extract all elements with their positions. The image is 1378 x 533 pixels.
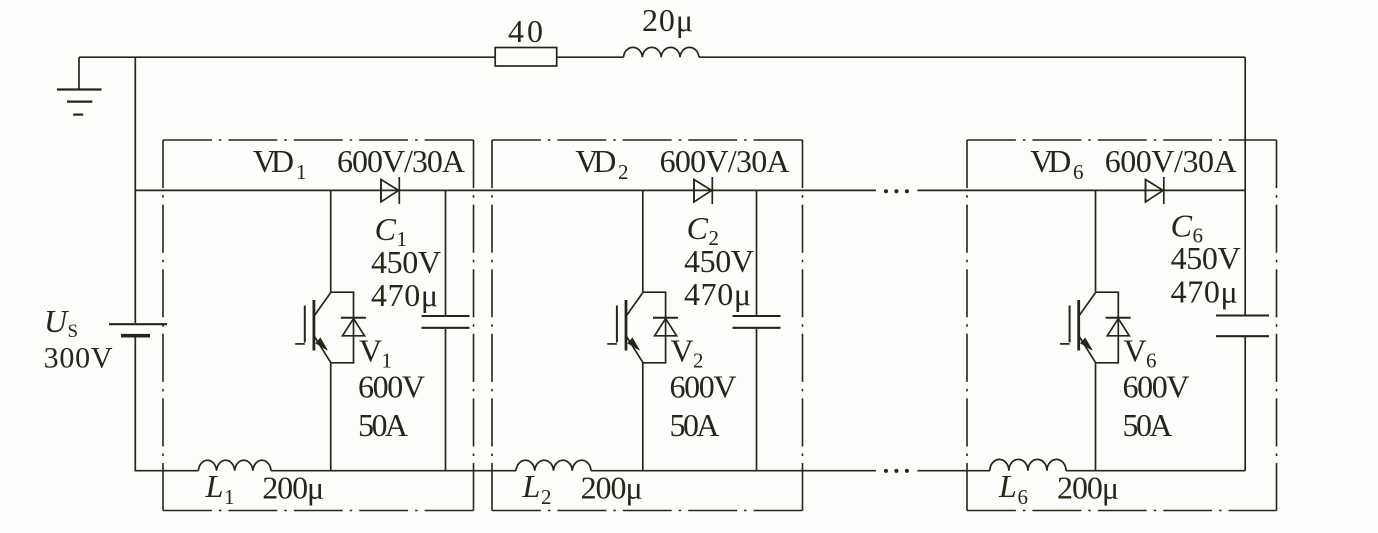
capacitor C1 branch <box>445 190 447 315</box>
svg-text:VD: VD <box>1030 143 1071 179</box>
wire between resistor and inductor <box>557 56 624 58</box>
inductor L6 <box>990 459 1066 470</box>
svg-text:470μ: 470μ <box>1171 274 1238 310</box>
svg-text:C: C <box>1171 208 1193 244</box>
svg-text:470μ: 470μ <box>684 276 751 312</box>
svg-text:6: 6 <box>1018 485 1029 509</box>
battery US plates <box>109 323 167 325</box>
ground <box>57 57 102 114</box>
capacitor C6 branch <box>1244 190 1246 314</box>
svg-text:600V/30A: 600V/30A <box>660 143 790 179</box>
svg-text:V: V <box>359 333 382 369</box>
svg-text:600V/30A: 600V/30A <box>1105 143 1237 179</box>
wire bottom row <box>271 470 516 472</box>
svg-text:300V: 300V <box>44 342 113 375</box>
svg-text:450V: 450V <box>684 243 754 279</box>
svg-text:L: L <box>205 468 224 504</box>
svg-text:1: 1 <box>224 485 235 509</box>
svg-text:VD: VD <box>253 143 294 179</box>
svg-text:C: C <box>375 211 397 247</box>
node dots diode row <box>884 189 909 473</box>
svg-text:S: S <box>68 321 79 342</box>
svg-text:450V: 450V <box>371 244 441 280</box>
wire diode row <box>135 189 876 191</box>
svg-text:470μ: 470μ <box>371 277 438 313</box>
svg-text:200μ: 200μ <box>1057 470 1119 506</box>
svg-text:600V: 600V <box>670 369 737 405</box>
svg-text:450V: 450V <box>1171 240 1241 276</box>
battery US wire upper <box>134 57 136 323</box>
transistor V1 (IGBT with antiparallel diode) <box>295 190 366 471</box>
module box 1 <box>163 140 474 511</box>
svg-text:1: 1 <box>296 160 307 184</box>
svg-text:200μ: 200μ <box>262 470 324 506</box>
module box 2 <box>492 140 803 511</box>
wire top bus right segment <box>699 56 1245 58</box>
svg-text:V: V <box>1124 333 1147 369</box>
svg-text:C: C <box>687 210 709 246</box>
svg-text:200μ: 200μ <box>581 470 643 506</box>
diode VD1 <box>381 177 399 204</box>
inductor L1 <box>198 460 271 470</box>
svg-text:L: L <box>998 468 1017 504</box>
svg-text:V: V <box>671 333 694 369</box>
svg-text:2: 2 <box>618 160 629 184</box>
svg-text:600V/30A: 600V/30A <box>337 143 465 179</box>
diode VD6 <box>1146 177 1164 204</box>
svg-text:50A: 50A <box>670 407 720 443</box>
diode VD2 <box>694 177 712 204</box>
svg-text:50A: 50A <box>1123 407 1173 443</box>
capacitor C2 branch <box>756 190 758 315</box>
transistor V2 (IGBT with antiparallel diode) <box>607 190 678 471</box>
svg-text:600V: 600V <box>358 369 425 405</box>
battery US wire lower <box>135 337 198 471</box>
svg-text:20μ: 20μ <box>642 2 693 38</box>
module box 6 <box>967 140 1277 511</box>
svg-text:50A: 50A <box>358 407 408 443</box>
wire top bus left segment <box>79 56 495 58</box>
resistor R 40 <box>495 48 557 67</box>
svg-text:U: U <box>44 303 69 339</box>
svg-text:L: L <box>522 468 541 504</box>
svg-text:6: 6 <box>1073 160 1084 184</box>
svg-text:VD: VD <box>575 143 616 179</box>
transistor V6 (IGBT with antiparallel diode) <box>1060 190 1131 471</box>
inductor 20u <box>624 47 699 57</box>
inductor L2 <box>516 460 591 470</box>
svg-text:2: 2 <box>541 485 552 509</box>
node dots bottom row <box>884 469 888 473</box>
svg-text:600V: 600V <box>1123 369 1190 405</box>
wire right drop <box>1244 57 1246 190</box>
